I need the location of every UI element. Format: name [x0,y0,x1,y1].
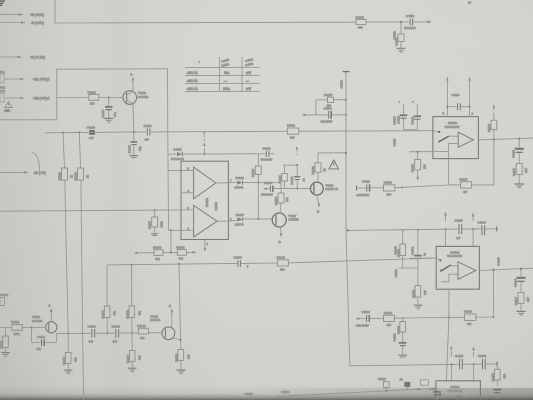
T4010 emitter wire [132,104,135,133]
svg-text:R4148: R4148 [277,255,286,259]
svg-text:R4116: R4116 [384,180,392,184]
wire resistor column R4029 [79,133,80,169]
svg-text:100: 100 [423,290,427,295]
svg-text:4k7: 4k7 [467,322,472,326]
resistor R4168 [311,163,327,175]
svg-text:R4119: R4119 [393,116,397,124]
svg-text:C4303: C4303 [455,354,464,358]
resistor R4206 [464,310,476,327]
svg-text:C4162: C4162 [281,390,290,394]
svg-text:C4304: C4304 [429,387,438,391]
wire feedback verticals [449,270,494,318]
node [31,326,33,328]
svg-text:C4117: C4117 [393,138,397,146]
warning triangle [329,160,339,169]
resistor R4114 [460,177,472,194]
resistor R4118 [287,124,299,140]
svg-text:220k: 220k [160,221,164,228]
ground [1,353,10,357]
svg-text:IC4302: IC4302 [451,385,460,389]
pin 6 stub [181,189,194,193]
node [154,209,156,211]
svg-text:R4183: R4183 [153,246,162,250]
svg-text:B: B [131,72,133,76]
node [445,228,447,230]
resistor R4021 [58,168,74,181]
svg-text:C4141: C4141 [88,324,97,328]
svg-text:TDA2030AV: TDA2030AV [447,254,462,258]
resistor R4216 [384,311,403,327]
svg-text:R4117: R4117 [512,168,516,176]
op-amp IC4103 box [433,117,479,159]
svg-text:68n: 68n [224,71,229,75]
svg-text:C4179: C4179 [324,107,333,111]
svg-text:P12: P12 [0,89,5,93]
resistor R4142 [137,324,148,340]
svg-text:R4150: R4150 [356,15,365,19]
svg-text:T4010: T4010 [138,91,146,95]
svg-text:+B (+12V): +B (+12V) [30,13,44,17]
op-amp U1a triangle [194,167,216,199]
wire +B1 (+9V)A [4,78,50,82]
svg-text:10k: 10k [280,267,285,271]
wire feedback to box [449,159,461,185]
resistor R4209 column [397,318,406,342]
resistor R4138 column up [126,264,142,333]
op-amp IC4102 box [181,161,228,239]
diode D4186 [235,176,245,189]
label [281,390,290,394]
connector arrow up from node [203,131,206,154]
capacitor C4164 [261,146,275,161]
supply rails with arrows [446,77,471,107]
ground [64,370,73,374]
wire column to T4142 [179,264,181,340]
resistor R4211 stub [378,377,389,391]
wire collector top [318,153,346,163]
svg-text:R4142: R4142 [137,324,146,328]
svg-text:R4115: R4115 [411,164,415,172]
svg-text:100: 100 [187,354,191,359]
node junction at x=401 [400,21,402,23]
rotated label [274,196,289,205]
svg-text:BC337-40: BC337-40 [326,187,339,191]
svg-text:u47: u47 [456,236,461,240]
wire IC input column x=168 [168,69,169,231]
IC4102 label [205,198,218,211]
capacitor C4105 column [290,165,306,188]
resistor R4183 [153,246,163,261]
supply rails with arrows [444,212,474,247]
resistor R4151 [395,22,405,48]
node [418,388,420,390]
transistor T4166 [311,182,339,195]
svg-text:R4158: R4158 [394,246,398,255]
op-amp IC4202 box [436,246,479,289]
svg-text:R4213: R4213 [497,257,501,266]
connector arrow above C4105 [296,146,299,155]
wire inverting input L [441,274,458,282]
capacitor C4131 branch [32,327,57,351]
svg-text:C4156: C4156 [393,31,397,40]
wire R4173 branch [316,100,346,115]
svg-text:-106 A2: -106 A2 [187,71,198,75]
IC4103 label [445,121,460,129]
capacitor C4113 [447,93,469,110]
left edge small parts [0,293,9,305]
resistor R4115 [411,152,427,181]
op-amp IC4302 box (partial) [436,381,481,400]
resistor R4013 [88,90,99,105]
T4010 collector arrow up [131,72,135,91]
svg-text:1k2: 1k2 [90,102,95,106]
svg-text:100u/50V: 100u/50V [321,119,333,123]
connector P12 [0,89,5,102]
svg-text:C4119: C4119 [144,124,152,128]
left shade [0,0,230,400]
svg-text:R4147: R4147 [126,354,130,363]
svg-text:C4131: C4131 [37,335,46,339]
resistor R4106 column [251,154,261,219]
svg-text:u47: u47 [145,137,150,141]
svg-text:R4206: R4206 [464,310,473,314]
svg-text:+B2 (+9V)A: +B2 (+9V)A [33,97,50,101]
node [179,339,181,341]
resistor R4147 column down [126,333,142,368]
wire [243,182,281,184]
wire C4178 rail x=346 [346,72,350,366]
node [170,251,172,253]
pin 4 arrow below box [204,240,209,252]
svg-text:5k1: 5k1 [179,257,184,261]
svg-text:C4023: C4023 [87,126,96,130]
svg-text:R4137: R4137 [101,310,105,319]
node [257,218,259,220]
ground [515,184,525,188]
svg-text:C4203: C4203 [455,218,464,222]
resistor R4134 column [62,334,78,370]
svg-text:47u: 47u [113,112,117,117]
node [417,151,419,153]
resistor R4132 [11,320,22,336]
svg-text:T4142: T4142 [150,315,158,319]
op-amp U3 triangle [458,262,476,280]
node [203,153,205,155]
diode D4187 [235,213,245,226]
ground [397,48,406,52]
wire: vertical feed at x=55 [54,0,56,23]
value table [185,57,260,92]
node [493,138,495,140]
ground [128,368,137,372]
capacitor C4018 to ground [128,132,143,155]
capacitor C4179 [321,107,333,124]
svg-text:u33: u33 [113,339,118,343]
svg-text:u47: u47 [246,87,251,91]
resistor R4150 [356,15,367,29]
IC4302 label [447,385,462,393]
wire feedback row y=317 [403,317,494,318]
wire C4179 branch [302,114,347,117]
node [472,228,474,230]
svg-text:1u: 1u [302,178,306,182]
node [402,317,404,319]
svg-text:u47: u47 [89,136,94,140]
svg-text:10u: 10u [37,347,42,351]
node [296,164,298,166]
wire curved jumper [33,153,40,173]
capacitor C4203 [455,218,464,239]
capacitor C4015 [101,98,117,119]
op-amp U2 triangle [458,132,473,147]
svg-text:R4021: R4021 [58,172,62,181]
wire to T4010 base [99,97,123,99]
svg-text:R4134: R4134 [62,356,66,365]
resistor R4201 column [397,230,406,268]
svg-text:47k: 47k [138,310,142,315]
pin 2 stub [169,226,194,230]
svg-text:R4029: R4029 [74,172,78,181]
T4130 collector arrow up [49,304,53,322]
resistor R4105 column [278,165,287,188]
node [170,229,172,231]
capacitor C4023 [87,126,96,140]
wire emitter rail y=333.5 [56,333,162,334]
node [402,229,404,231]
resistor R4107 [148,210,164,233]
svg-text:C4015: C4015 [101,109,105,118]
T4167 emitter arrow down [278,227,282,244]
svg-text:A4A: A4A [5,108,10,112]
wire feedback entry [448,152,450,159]
capacitor C4209 [399,343,407,355]
wire caps to input [404,130,418,131]
svg-text:MA748: MA748 [235,186,244,190]
resistor R4302 [421,380,429,385]
svg-text:LM358: LM358 [214,202,218,211]
svg-text:100: 100 [423,164,427,169]
resistor R4173 [324,93,334,107]
capacitor C4204 [478,220,487,235]
T4142 emitter wire [173,338,181,340]
resistor R4205 column [412,268,428,305]
svg-text:4R7: 4R7 [524,167,528,173]
capacitor C4206 [355,310,383,327]
wire to T4167 top [280,203,281,213]
IC4202 label [447,250,462,258]
node [78,132,80,134]
capacitor C4302 [478,354,487,369]
tape motor sub-board box [0,69,168,120]
transistor T4142 [150,315,175,340]
svg-text:B: B [169,304,171,308]
capacitor C4114 Zobel [512,139,524,164]
svg-text:22: 22 [400,377,404,381]
wire to C4152 [366,21,409,23]
svg-text:TDA2030AV: TDA2030AV [447,389,462,393]
svg-text:IC4103: IC4103 [448,121,457,125]
node [446,106,448,108]
svg-text:C4206: C4206 [362,310,371,314]
transistor T4130 [32,315,57,333]
svg-text:C4152: C4152 [406,14,415,18]
mute switch dot [439,393,441,395]
svg-text:4k7: 4k7 [463,190,468,194]
pin stubs top [443,107,474,117]
resistor R4137 column up [101,265,117,333]
wire output net [479,268,533,270]
node [178,263,180,265]
resistor R4143 [175,340,191,370]
wire D4186 output [216,182,229,184]
node [345,99,347,101]
wire mute drop to IC4302 [446,318,449,381]
svg-text:C4202: C4202 [411,246,415,255]
svg-text:R4163: R4163 [487,123,491,132]
wire -B (-12V) [0,21,44,25]
node [108,97,110,99]
svg-text:10k: 10k [74,357,78,362]
node [448,317,450,319]
svg-text:R4132: R4132 [11,320,20,324]
svg-text:100u/16V: 100u/16V [261,193,273,197]
wire node to pin2 [170,230,172,252]
wire D4187 output [217,220,228,222]
resistor R4217 [514,293,530,311]
svg-text:100k: 100k [14,332,21,336]
svg-text:D4186: D4186 [236,176,245,180]
diode D4101 [171,148,184,161]
capacitor C4111 column [399,101,422,130]
op-amp U4 triangle partial [458,396,466,400]
svg-text:10k: 10k [285,197,289,202]
wire output net [478,138,533,140]
node [520,268,522,270]
capacitor C4213 [400,377,411,389]
wire C4104 into T4166 base [261,181,311,196]
op-amp U1b triangle [194,205,217,237]
ground [516,311,526,315]
svg-text:R4131: R4131 [0,340,4,349]
svg-text:R4138: R4138 [126,310,130,319]
svg-text:C4114: C4114 [512,150,516,158]
svg-text:P11: P11 [0,70,5,74]
svg-text:C4163: C4163 [245,392,254,396]
svg-text:100u/16V: 100u/16V [404,26,416,30]
svg-text:-B: -B [317,210,320,214]
wire base feed [57,97,89,99]
wire T4167 collector column [280,183,282,194]
svg-text:R4209: R4209 [397,325,401,334]
node [345,152,347,154]
svg-text:C4112: C4112 [397,116,401,124]
mute switch [433,131,458,143]
svg-text:R4106: R4106 [251,168,255,177]
svg-text:+100u/25V: +100u/25V [356,193,370,197]
svg-text:100n: 100n [223,87,230,91]
wire T4130 base row [0,326,46,328]
svg-text:BYD13-60: BYD13-60 [171,157,184,161]
ground [130,156,138,158]
warning triangle A [5,102,13,113]
ground [151,234,158,236]
svg-text:C4113: C4113 [452,93,460,97]
wire [183,153,266,155]
node [133,131,135,133]
node [62,132,64,134]
svg-text:C4204: C4204 [478,220,487,224]
svg-text:-B: -B [278,240,281,244]
svg-text:C4178: C4178 [340,80,344,89]
svg-text:C4018: C4018 [128,145,132,154]
svg-text:R4114: R4114 [460,177,468,181]
node [386,390,388,392]
node [518,138,520,140]
svg-text:+100u/25V: +100u/25V [356,323,370,327]
svg-text:R4118: R4118 [287,124,295,128]
node [492,316,494,318]
wire C4303 feed row [350,361,499,366]
wire into + input [410,257,436,259]
svg-text:R4173: R4173 [324,93,333,97]
wire: main top rail y=23 [55,21,356,24]
capacitor C4214 Zobel2 [514,269,526,293]
bottom photo shadow [0,385,533,400]
svg-text:4R7: 4R7 [526,296,530,302]
svg-text:R4305: R4305 [491,373,495,382]
svg-text:10k: 10k [140,336,145,340]
node [345,114,347,116]
svg-text:C4105: C4105 [290,176,294,185]
node [469,106,471,108]
svg-text:TDA2030AV: TDA2030AV [445,125,460,129]
node [347,229,349,231]
node [67,333,69,335]
svg-text:u47: u47 [246,71,251,75]
supply rails with arrows [450,346,475,381]
svg-text:R4168: R4168 [311,166,315,175]
svg-text:BC550B: BC550B [289,218,299,222]
capacitor C4303 [455,354,464,369]
right-edge rotated labels [393,246,501,342]
transistor T4167 [272,213,299,227]
connector P11 [0,70,5,90]
wire to T4167 base [243,218,272,220]
svg-text:22: 22 [468,0,472,4]
wire -10(-9V) arrow [0,171,46,175]
capacitor C4202 column [411,230,427,268]
svg-text:470u/16V: 470u/16V [261,158,273,162]
svg-text:100: 100 [503,373,507,378]
wire +B (+12V) [0,13,44,17]
svg-text:---: --- [224,79,227,83]
svg-text:1u: 1u [423,252,427,256]
wire R4183 row [134,251,197,254]
svg-text:IC4202: IC4202 [451,250,460,254]
ground [177,370,186,374]
svg-text:C4104: C4104 [264,181,273,185]
svg-text:IC4102: IC4102 [205,198,209,207]
svg-text:T4130: T4130 [32,315,40,319]
svg-text:R4143: R4143 [175,353,179,362]
wire C4116 row [356,180,383,197]
wire +B2 (+9V)A [4,97,50,101]
svg-text:C4302: C4302 [478,354,487,358]
resistor R4163 column up [487,104,497,139]
ground [399,355,408,357]
svg-text:T4166: T4166 [326,184,334,188]
capacitor C4141 [88,324,97,343]
